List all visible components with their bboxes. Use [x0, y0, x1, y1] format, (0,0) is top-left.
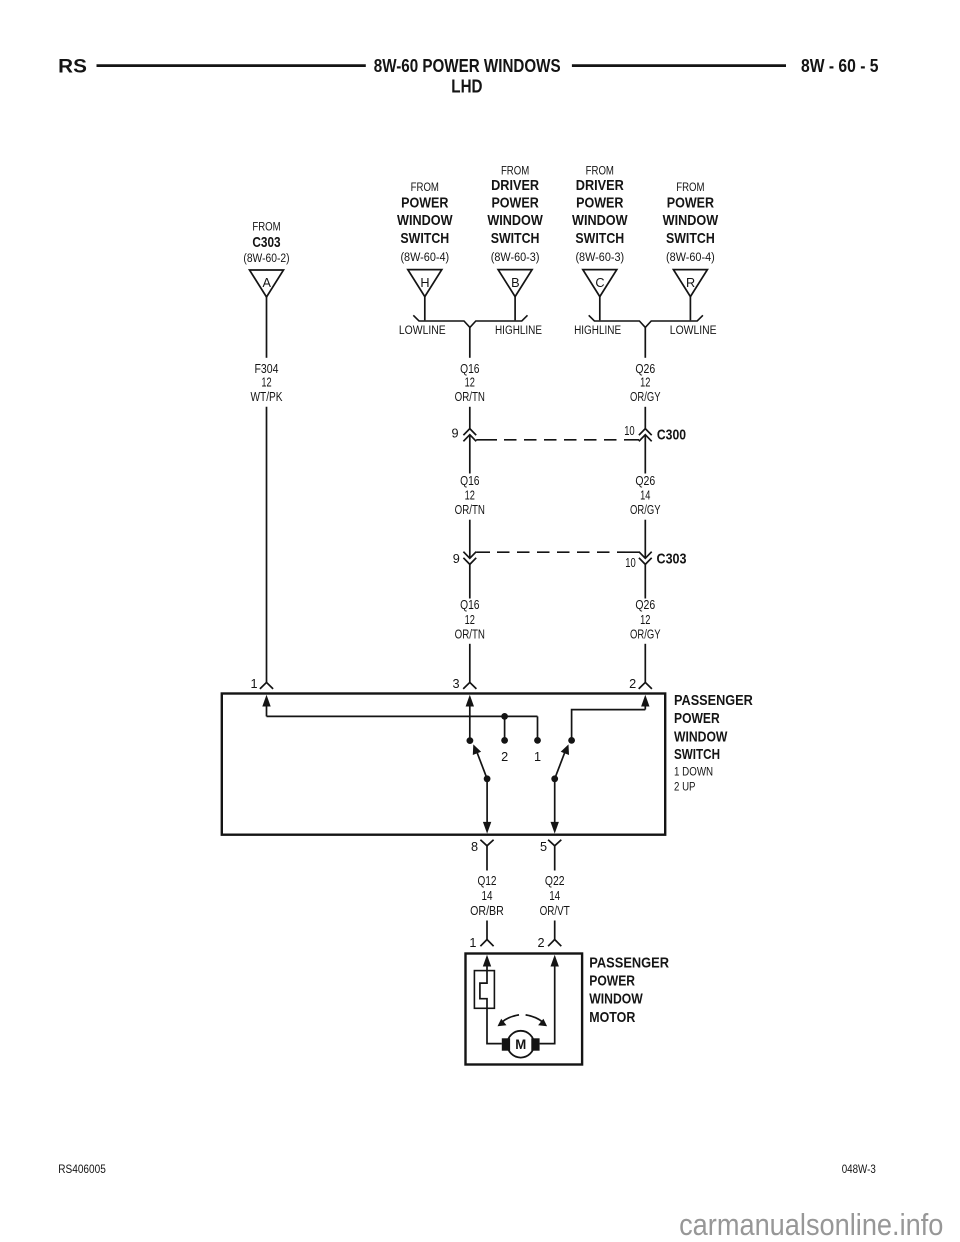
svg-text:POWER: POWER — [401, 195, 449, 211]
connector triangle H — [408, 270, 442, 297]
connector C303 pin 9 (left half) — [453, 552, 476, 566]
header label RS — [58, 57, 87, 78]
svg-text:H: H — [420, 276, 429, 290]
brace joining C and R — [589, 315, 703, 327]
wire label Q16 12 OR/TN (lower) — [455, 597, 485, 642]
svg-text:Q16: Q16 — [460, 361, 479, 376]
header title 8W-60 POWER WINDOWS — [374, 55, 561, 76]
motor left brush — [502, 1038, 510, 1050]
svg-text:DRIVER: DRIVER — [576, 178, 624, 194]
svg-text:OR/TN: OR/TN — [455, 502, 485, 517]
svg-text:SWITCH: SWITCH — [575, 231, 624, 247]
svg-text:OR/VT: OR/VT — [540, 903, 570, 918]
stub to contact 2 — [504, 716, 506, 740]
svg-text:10: 10 — [625, 556, 636, 570]
svg-text:WINDOW: WINDOW — [397, 213, 453, 229]
svg-text:Q26: Q26 — [635, 597, 655, 612]
switch internal arrow to pin 1 — [262, 695, 270, 717]
wire label Q26 14 OR/GY (middle) — [630, 473, 661, 517]
svg-text:FROM: FROM — [501, 164, 529, 178]
wire label Q26 12 OR/GY (lower) — [630, 597, 661, 642]
watermark carmanualsonline.info — [679, 1207, 943, 1242]
node B label FROM DRIVER POWER WINDOW SWITCH (8W-60-3) — [487, 164, 543, 264]
connector C300 pin 9 (left half) — [451, 427, 476, 442]
wire Q26 to switch pin 2 — [644, 644, 646, 683]
svg-text:PASSENGER: PASSENGER — [589, 955, 669, 971]
header rule left — [97, 64, 366, 67]
wire from C to brace — [599, 297, 601, 321]
wire label F304 12 WT/PK — [251, 361, 283, 404]
svg-text:Q26: Q26 — [635, 361, 655, 376]
svg-text:MOTOR: MOTOR — [589, 1010, 635, 1026]
right blade output wire to pin 5 — [551, 779, 559, 834]
svg-text:14: 14 — [640, 487, 650, 502]
connector C303 dashed tie line — [476, 551, 639, 553]
circuit breaker element — [480, 971, 487, 1009]
wire label Q26 12 OR/GY (upper) — [630, 361, 661, 404]
svg-text:OR/GY: OR/GY — [630, 389, 661, 404]
svg-text:B: B — [511, 276, 519, 290]
svg-text:12: 12 — [465, 612, 475, 627]
svg-text:PASSENGER: PASSENGER — [674, 693, 753, 709]
connector C300 pin 10 (right half) — [624, 424, 652, 441]
svg-text:8W-60 POWER WINDOWS: 8W-60 POWER WINDOWS — [374, 55, 561, 76]
label HIGHLINE under C — [574, 323, 621, 337]
wire Q26 lower segment — [644, 564, 646, 598]
switch pin 3 — [452, 677, 476, 691]
connector triangle A — [250, 270, 284, 297]
svg-text:carmanualsonline.info: carmanualsonline.info — [679, 1207, 943, 1242]
svg-text:OR/TN: OR/TN — [455, 627, 485, 642]
svg-text:C303: C303 — [657, 551, 687, 568]
motor right brush — [531, 1038, 539, 1050]
connector C303 pin 10 (right half) — [625, 552, 651, 571]
passenger power window motor box — [466, 954, 583, 1065]
wire Q26 upper segment — [644, 327, 646, 428]
svg-text:FROM: FROM — [411, 180, 439, 194]
junction dot on feed wire — [501, 713, 508, 720]
svg-text:HIGHLINE: HIGHLINE — [495, 323, 542, 337]
wire Q16 segment to C303 — [469, 520, 471, 558]
wire Q12 segment — [486, 846, 488, 871]
wire label Q12 14 OR/BR — [470, 873, 504, 918]
svg-text:(8W-60-4): (8W-60-4) — [666, 250, 715, 264]
svg-text:LOWLINE: LOWLINE — [670, 323, 717, 337]
switch pin 8 — [471, 840, 494, 854]
motor pin 1 — [469, 936, 493, 950]
wire Q22 segment — [554, 846, 556, 871]
svg-text:HIGHLINE: HIGHLINE — [574, 323, 621, 337]
svg-text:OR/GY: OR/GY — [630, 627, 661, 642]
switch pin 5 — [540, 840, 561, 854]
svg-text:14: 14 — [482, 888, 493, 903]
svg-text:POWER: POWER — [589, 974, 635, 990]
wire Q22 to motor pin 2 — [554, 921, 556, 940]
wire Q26 segment to C303 — [644, 520, 646, 558]
svg-text:Q16: Q16 — [460, 473, 479, 488]
svg-text:POWER: POWER — [576, 195, 624, 211]
footer right 048W-3 — [842, 1162, 876, 1176]
svg-text:OR/BR: OR/BR — [470, 903, 504, 918]
svg-text:9: 9 — [451, 427, 458, 441]
svg-text:POWER: POWER — [667, 195, 715, 211]
svg-text:C: C — [595, 276, 604, 290]
svg-text:RS406005: RS406005 — [58, 1162, 106, 1176]
header subtitle LHD — [451, 76, 482, 97]
wire Q16 to switch pin 3 — [469, 644, 471, 683]
contact dot pin2 feed — [568, 737, 575, 744]
left blade output wire to pin 8 — [483, 779, 491, 834]
svg-text:8: 8 — [471, 840, 478, 854]
motor pin 2 — [537, 936, 561, 950]
svg-text:R: R — [686, 276, 695, 290]
stub to contact 1 — [537, 716, 539, 740]
contact dot 2 — [501, 737, 508, 744]
switch label PASSENGER POWER WINDOW SWITCH — [674, 693, 753, 793]
rotation arc left with arrowhead — [498, 1015, 520, 1026]
node R label FROM POWER WINDOW SWITCH (8W-60-4) — [663, 180, 719, 264]
svg-text:WINDOW: WINDOW — [487, 213, 543, 229]
header page number 8W - 60 - 5 — [801, 55, 879, 76]
svg-text:12: 12 — [465, 375, 475, 390]
svg-text:WT/PK: WT/PK — [251, 389, 283, 404]
svg-text:SWITCH: SWITCH — [491, 231, 540, 247]
wire label Q16 12 OR/TN (upper) — [455, 361, 485, 404]
svg-text:12: 12 — [640, 612, 650, 627]
motor internal arrow at pin 1 — [483, 955, 491, 971]
connector triangle C — [583, 270, 617, 297]
svg-text:2: 2 — [537, 936, 544, 950]
contact dot pin3 — [467, 737, 474, 744]
motor label PASSENGER POWER WINDOW MOTOR — [589, 955, 669, 1026]
left switch blade with arrow — [473, 744, 487, 778]
svg-text:POWER: POWER — [491, 195, 539, 211]
switch internal arrow to pin 2 — [641, 695, 649, 710]
svg-text:8W - 60 - 5: 8W - 60 - 5 — [801, 55, 879, 76]
svg-text:Q22: Q22 — [545, 873, 565, 888]
svg-text:5: 5 — [540, 840, 547, 854]
svg-text:SWITCH: SWITCH — [400, 231, 449, 247]
label LOWLINE under H — [399, 323, 446, 337]
node C label FROM DRIVER POWER WINDOW SWITCH (8W-60-3) — [572, 164, 628, 264]
svg-text:2: 2 — [629, 677, 636, 691]
svg-text:2 UP: 2 UP — [674, 779, 696, 793]
wire from R to brace — [689, 297, 691, 321]
svg-text:LOWLINE: LOWLINE — [399, 323, 446, 337]
svg-text:(8W-60-3): (8W-60-3) — [575, 250, 624, 264]
rotation arc right with arrowhead — [526, 1015, 548, 1026]
svg-text:12: 12 — [640, 375, 650, 390]
wire Q12 to motor pin 1 — [486, 921, 488, 940]
circuit breaker box — [474, 971, 494, 1009]
switch internal wire pin1 feed — [267, 715, 538, 717]
passenger power window switch box — [222, 694, 665, 835]
left blade pivot dot — [484, 775, 491, 782]
svg-text:FROM: FROM — [252, 220, 280, 234]
wire from B to brace — [514, 297, 516, 321]
svg-text:DRIVER: DRIVER — [491, 178, 539, 194]
wire breaker to motor left brush — [487, 1008, 502, 1043]
wire Q16 lower segment — [469, 564, 471, 598]
svg-text:OR/TN: OR/TN — [455, 389, 485, 404]
svg-text:Q16: Q16 — [460, 597, 479, 612]
svg-text:2: 2 — [501, 750, 508, 764]
wire label Q22 14 OR/VT — [540, 873, 570, 918]
svg-text:12: 12 — [261, 375, 271, 390]
wire motor right brush to pin 2 — [540, 960, 555, 1044]
svg-text:POWER: POWER — [674, 711, 720, 727]
svg-text:M: M — [515, 1037, 526, 1052]
node A label FROM C303 (8W-60-2) — [243, 220, 289, 265]
label contact 1 — [534, 750, 541, 764]
svg-text:RS: RS — [58, 57, 87, 78]
svg-text:WINDOW: WINDOW — [663, 213, 719, 229]
wire from H to brace — [424, 297, 426, 321]
contact dot 1 — [534, 737, 541, 744]
svg-text:12: 12 — [465, 487, 475, 502]
wire Q16 middle segment — [469, 436, 471, 474]
svg-text:LHD: LHD — [451, 76, 482, 97]
svg-text:(8W-60-2): (8W-60-2) — [243, 251, 289, 265]
connector name C300 — [657, 426, 686, 443]
svg-text:FROM: FROM — [676, 180, 704, 194]
svg-text:(8W-60-4): (8W-60-4) — [400, 250, 449, 264]
motor M circle — [507, 1031, 534, 1058]
footer left RS406005 — [58, 1162, 106, 1176]
svg-text:Q26: Q26 — [635, 473, 655, 488]
svg-text:SWITCH: SWITCH — [674, 747, 720, 763]
wire Q16 upper segment — [469, 327, 471, 428]
wire label Q16 12 OR/TN (middle) — [455, 473, 485, 517]
svg-text:C303: C303 — [252, 235, 280, 251]
svg-text:1: 1 — [250, 677, 257, 691]
wire Q26 middle segment — [644, 436, 646, 474]
connector C300 dashed tie line — [476, 439, 639, 441]
right switch blade with arrow — [555, 744, 569, 778]
svg-text:SWITCH: SWITCH — [666, 231, 715, 247]
connector triangle R — [673, 270, 707, 297]
svg-text:1 DOWN: 1 DOWN — [674, 764, 713, 778]
svg-text:(8W-60-3): (8W-60-3) — [491, 250, 540, 264]
svg-text:1: 1 — [469, 936, 476, 950]
svg-text:9: 9 — [453, 552, 460, 566]
svg-text:WINDOW: WINDOW — [589, 992, 643, 1008]
svg-text:OR/GY: OR/GY — [630, 502, 661, 517]
switch pin 2 — [629, 677, 652, 691]
label HIGHLINE under B — [495, 323, 542, 337]
svg-text:10: 10 — [624, 424, 635, 438]
svg-text:Q12: Q12 — [478, 873, 497, 888]
wire from A down to switch pin 1 — [266, 297, 268, 682]
svg-text:F304: F304 — [255, 361, 279, 376]
switch internal wire pin2 feed — [572, 710, 646, 741]
svg-text:FROM: FROM — [586, 164, 614, 178]
svg-text:C300: C300 — [657, 426, 686, 443]
svg-text:048W-3: 048W-3 — [842, 1162, 876, 1176]
svg-text:3: 3 — [452, 677, 459, 691]
label LOWLINE under R — [670, 323, 717, 337]
svg-text:A: A — [262, 276, 271, 290]
node H label FROM POWER WINDOW SWITCH (8W-60-4) — [397, 180, 453, 264]
svg-text:14: 14 — [549, 888, 560, 903]
svg-text:WINDOW: WINDOW — [674, 729, 728, 745]
switch internal arrow to pin 3 — [466, 695, 474, 741]
label contact 2 — [501, 750, 508, 764]
brace joining H and B — [413, 315, 527, 327]
motor internal arrow at pin 2 — [551, 955, 559, 967]
switch pin 1 — [250, 677, 273, 691]
connector triangle B — [498, 270, 532, 297]
header rule right — [572, 64, 786, 67]
svg-text:WINDOW: WINDOW — [572, 213, 628, 229]
right blade pivot dot — [551, 775, 558, 782]
svg-text:1: 1 — [534, 750, 541, 764]
connector name C303 — [657, 551, 687, 568]
